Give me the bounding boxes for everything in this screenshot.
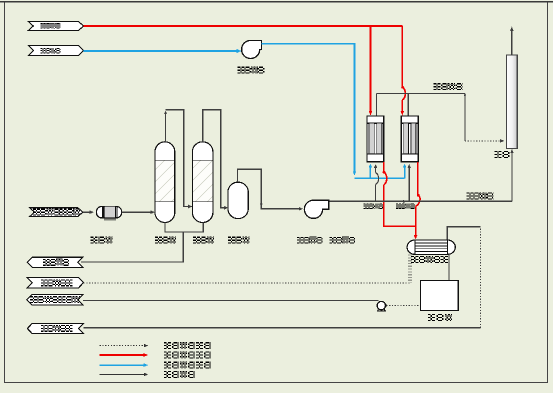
- component: tubular condenser: [407, 240, 455, 254]
- label: spray tower: [155, 237, 176, 244]
- component: adsorber 1: [367, 116, 384, 162]
- banner: fresh air inlet: [28, 46, 83, 56]
- component: separation tank: [421, 280, 459, 310]
- wire: steam out of adsorber 1 (red): [383, 162, 416, 226]
- label: separation tank: [428, 314, 452, 321]
- legend: waste gas treatment line: [100, 342, 211, 349]
- wire: cooling water into condenser: [410, 255, 412, 284]
- wire: cooling water return: [84, 227, 481, 328]
- label: water wash tower: [193, 237, 214, 244]
- label: bypass to stack: [466, 192, 493, 199]
- legend: liquid line: [100, 371, 195, 378]
- component: spray tower: [155, 142, 175, 223]
- label: adsorber 1: [364, 203, 384, 209]
- banner: circulating water return: [27, 323, 83, 333]
- junction: header corner: [464, 94, 467, 97]
- wire: pump suction (dotted): [386, 304, 420, 306]
- legend: steam regeneration line: [100, 351, 211, 358]
- component: buffer tank: [228, 182, 248, 218]
- label: gas flow note: [329, 237, 355, 244]
- wire: tower2 overhead to buffer tank: [203, 110, 229, 210]
- wire: steam header (red): [84, 25, 403, 27]
- wire: discharge duct to stack (dotted): [465, 94, 505, 143]
- banner: waste gas from printing press: [30, 208, 83, 217]
- component: recovered liquid pump: [377, 301, 387, 311]
- banner: circulating water supply: [27, 278, 83, 288]
- wire: waste gas to pre-cooler: [83, 210, 94, 214]
- wire: dry air riser to adsorber 1 (blue): [369, 164, 373, 179]
- wire: dry air from fan (blue): [261, 44, 356, 176]
- label: adsorber 2: [396, 203, 415, 208]
- wire: condensate to condenser (red): [414, 226, 418, 239]
- wire: treated gas header to stack: [376, 94, 465, 116]
- wire: cooling water supply (dotted): [84, 255, 410, 284]
- label: tubular condenser: [411, 256, 448, 263]
- component: drying fan: [242, 40, 262, 58]
- wire: condensate to separator: [448, 255, 450, 281]
- label: drying fan: [237, 67, 264, 74]
- wire: fresh air to drying fan (blue): [84, 49, 242, 53]
- banner: recovered liquid to waste water station: [27, 295, 83, 305]
- wire: cooled gas to spray tower: [122, 210, 155, 214]
- component: water wash tower: [192, 142, 213, 223]
- wire: buffer tank to adsorption fan: [238, 169, 304, 210]
- wire: main waste gas line: [329, 149, 514, 201]
- wire: dry air riser to adsorber 2 (blue): [403, 164, 407, 179]
- label: stack: [495, 151, 510, 158]
- wire: gas riser into adsorber 2: [403, 164, 411, 203]
- wire: tower1 overhead to tower2: [164, 110, 192, 209]
- label: buffer tank: [228, 237, 249, 244]
- banner: to waste water station: [27, 257, 83, 267]
- label: pre-cooler: [91, 237, 113, 244]
- legend: air drying line: [100, 361, 211, 368]
- banner: low pressure steam inlet: [28, 22, 83, 31]
- wire: dry air distribution header (blue): [355, 177, 405, 179]
- wire: steam drop to adsorber 1 (red): [369, 26, 373, 116]
- component: adsorption fan: [304, 200, 328, 218]
- component: pre-cooler: [97, 207, 122, 221]
- label: discharge-on-spec: [434, 83, 463, 90]
- label: adsorption fan: [297, 237, 323, 244]
- wire: stack vent: [510, 27, 514, 56]
- wire: steam drop to adsorber 2 (red): [401, 26, 406, 116]
- wire: steam out of adsorber 2 (red): [416, 162, 420, 226]
- component: adsorber 2: [401, 116, 418, 162]
- component: exhaust stack: [506, 55, 517, 148]
- wire: gas riser into adsorber 1: [374, 164, 379, 201]
- wire: tower drains to waste water: [81, 223, 203, 262]
- wire: pump discharge: [83, 299, 379, 301]
